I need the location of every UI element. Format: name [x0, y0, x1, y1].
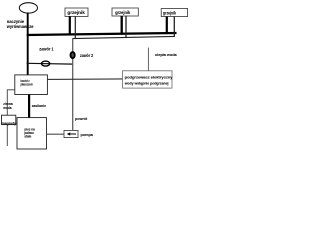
wire: stove to pump pipe: [47, 133, 65, 135]
magnetizer box (magnetyzer): [2, 115, 16, 124]
svg-text:pompa: pompa: [81, 132, 94, 137]
svg-text:grzejnik: grzejnik: [67, 10, 85, 15]
svg-text:podgrzewacz elektryczny: podgrzewacz elektryczny: [125, 75, 174, 79]
expansion vessel (naczynie wyrównawcze) ellipse: [19, 3, 37, 13]
radiator box 3 (grzejnik): [161, 9, 187, 17]
svg-text:ciepła woda: ciepła woda: [155, 52, 177, 57]
wire: grey drop line from return bus to pump: [72, 38, 74, 130]
wire: return line through valve 1: [27, 62, 73, 65]
svg-text:zasilanie: zasilanie: [32, 103, 47, 108]
valve V1 (zawór 1): [42, 61, 50, 66]
label naczynie wyrównawcze: [6, 19, 34, 29]
wire: cold water inlet into boiler jacket: [7, 89, 15, 91]
svg-text:powrót: powrót: [75, 116, 88, 121]
electric heater box (podgrzewacz elektryczny): [123, 71, 173, 88]
wire: thick supply bus: [27, 33, 177, 35]
radiator box 1 (grzejnik): [65, 8, 88, 16]
svg-text:zawór 2: zawór 2: [80, 53, 94, 58]
pump arrow: [69, 133, 76, 135]
svg-text:stałe: stałe: [24, 133, 31, 138]
wire: radiator 3 supply pipe: [166, 17, 168, 35]
svg-text:grzejnik: grzejnik: [163, 11, 177, 16]
wire: boiler to stove supply stem (zasilanie): [28, 95, 30, 118]
pump box (pompa) with arrow: [64, 130, 78, 137]
wire: cold water riser through magnetizer: [6, 90, 8, 146]
radiator box 2 (grzejnik): [112, 8, 138, 16]
svg-text:wyrównawcze: wyrównawcze: [6, 24, 34, 29]
svg-text:zawór 1: zawór 1: [39, 47, 54, 52]
wire: vessel stem down to boiler: [27, 13, 29, 75]
wire: radiator 1 return pipe: [74, 16, 76, 39]
solid fuel stove box (piec na paliwo stałe): [17, 118, 47, 149]
svg-text:wody wstępnie podgrzanej: wody wstępnie podgrzanej: [124, 81, 169, 85]
wire: hot water line boiler to electric heater: [47, 78, 122, 81]
wire: radiator 2 supply pipe: [121, 16, 123, 35]
svg-text:grzejnik: grzejnik: [115, 10, 131, 15]
valve V2 (zawór 2): [71, 52, 75, 58]
svg-text:płaszczem: płaszczem: [21, 82, 34, 87]
wire: radiator 1 supply pipe: [69, 16, 71, 35]
label zimna woda: [2, 101, 13, 110]
wire: radiator 3 return pipe: [173, 17, 175, 37]
wire: pointer from ciepła woda label to heater box: [147, 48, 149, 71]
boiler box (kocioł z płaszczem): [15, 75, 48, 95]
svg-text:woda: woda: [2, 105, 12, 110]
wire: thin return bus: [72, 36, 174, 38]
wire: radiator 2 return pipe: [125, 16, 127, 38]
